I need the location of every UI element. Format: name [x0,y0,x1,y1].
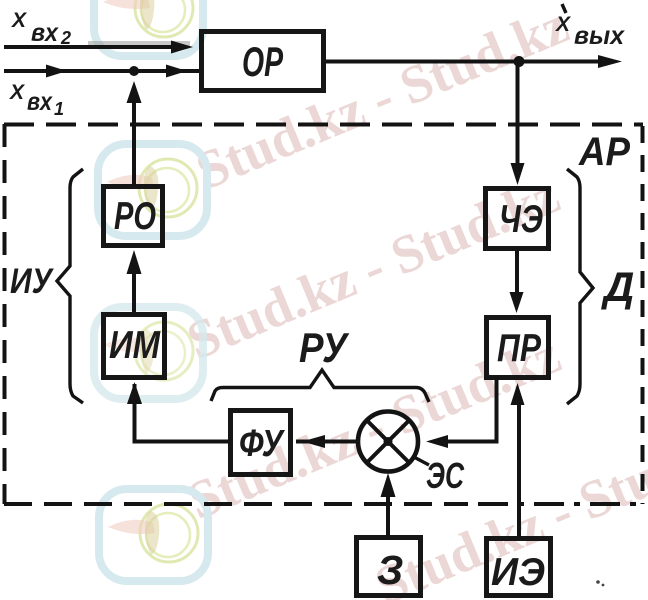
block Z [357,538,421,596]
block OR [202,32,324,91]
wire RO to input junction [127,81,142,186]
svg-text:вх: вх [27,88,53,116]
label x_vx1 [9,81,64,119]
svg-text:X: X [555,13,572,36]
svg-text:2: 2 [60,28,71,48]
label ES [412,455,465,496]
svg-text:З: З [377,547,403,593]
svg-text:ЧЭ: ЧЭ [499,198,543,241]
wire IM to RO [127,250,142,312]
label x_vyh [555,4,625,50]
block FU [231,411,291,475]
block PR [487,318,549,378]
svg-text:РУ: РУ [299,324,350,371]
block IM [104,315,165,378]
wire ChE to PR [510,251,524,313]
summing element ES [358,412,418,472]
svg-text:1: 1 [54,99,64,119]
svg-text:ФУ: ФУ [239,423,286,465]
node junction output [514,56,525,67]
label x_vx2 [11,9,71,48]
svg-text:ПР: ПР [497,327,542,370]
brace RU [211,370,429,402]
wire ES to FU [296,435,357,448]
dashed regulator box AR [4,124,643,504]
svg-text:АР: АР [578,130,630,174]
wire input x_vx2 [4,41,193,54]
svg-text:ИЭ: ИЭ [491,551,545,594]
svg-text:ИМ: ИМ [109,324,161,367]
svg-text:X: X [11,9,28,32]
svg-text:РО: РО [114,195,156,238]
wire IE to PR [511,383,525,536]
block ChE [486,189,549,249]
wire input x_vx1 [4,65,199,78]
svg-text:вых: вых [574,22,625,50]
brace D [567,169,593,404]
block IE [487,539,551,596]
wire PR to ES [426,378,497,448]
wire Z to ES [381,473,396,536]
node junction input [129,66,139,76]
svg-text:вх: вх [31,19,59,47]
wire output [326,55,622,68]
wire output to ChE [511,62,525,186]
svg-text:Д: Д [601,263,634,310]
wire FU to IM [127,382,230,442]
block RO [104,187,163,246]
svg-text:ЭС: ЭС [426,455,465,496]
svg-text:X: X [9,81,26,104]
svg-text:ОР: ОР [242,38,284,85]
brace IU [57,169,83,403]
svg-text:ИУ: ИУ [10,262,54,301]
